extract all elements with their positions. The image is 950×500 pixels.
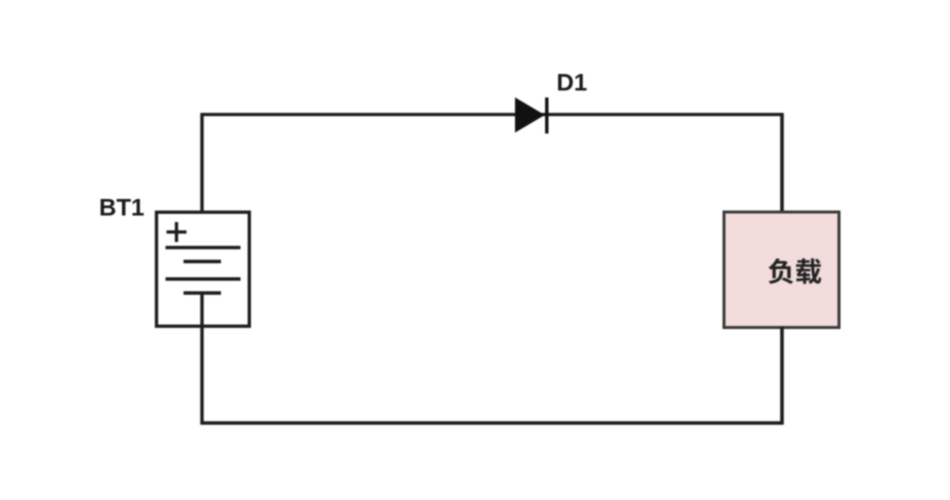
cell plate short (negative) [184,260,222,263]
wire right lower (load to bottom rail) [780,327,784,425]
svg-text:D1: D1 [557,69,588,96]
wire left upper (top rail down into battery positive plate) [200,113,203,248]
wire left lower (battery negative plate down to bottom rail) [200,293,203,425]
cell plate long (positive) [166,277,241,280]
plus sign [167,222,187,242]
load box (负载) [724,212,839,328]
wire top (anode side, from battery + to diode, through to load) [201,113,784,116]
diode D1 [516,98,547,134]
cell plate long (positive) [166,246,241,249]
label 负载 (load) glyph outlines [768,258,821,284]
battery BT1 [157,212,250,326]
cell plate short (negative) [184,291,222,294]
wire right upper (diode cathode down to load) [780,113,784,213]
svg-text:BT1: BT1 [99,195,144,222]
wire bottom (return rail) [201,421,784,424]
